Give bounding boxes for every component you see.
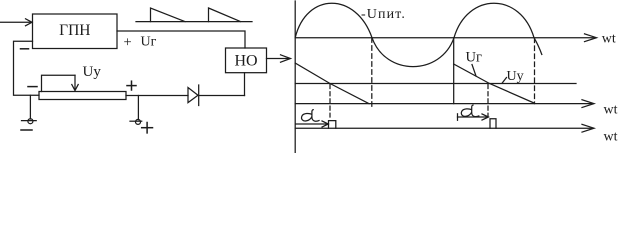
axis wt pulses (295, 127, 593, 129)
potentiometer R1 body (39, 92, 126, 100)
label alpha 1 (302, 110, 320, 122)
sawtooth icon 2 (209, 8, 241, 22)
block U2 НО (226, 48, 267, 73)
axis wt sine (295, 37, 595, 39)
leader Uг waveform label (472, 65, 476, 77)
alpha 2 tick (457, 114, 459, 121)
terminal plus branch (137, 96, 139, 120)
pulse 2 (490, 119, 496, 128)
dashed line crossing 1 (371, 38, 373, 107)
arrow НО output (267, 58, 290, 60)
wire diode to НО branch (199, 95, 245, 97)
wire pot to diode (126, 95, 188, 97)
ramp 1 Uг (295, 63, 369, 104)
svg-text:wt: wt (604, 130, 618, 145)
terminal minus branch (29, 95, 31, 119)
dashed line crossing 2 (534, 38, 536, 104)
svg-text:wt: wt (604, 103, 618, 118)
wire input to ГПН (0, 21, 32, 23)
leader Uу waveform label (502, 78, 507, 84)
dashed line pulse 1 (329, 85, 331, 118)
line Uу level (295, 83, 576, 85)
svg-text:Uг: Uг (141, 35, 157, 50)
wiper arrow (74, 75, 76, 89)
sawtooth icon baseline (136, 21, 252, 23)
pulse 1 (329, 121, 336, 129)
block U1 ГПН (33, 14, 118, 49)
svg-text:+: + (124, 35, 132, 51)
diode VD1 (188, 88, 198, 103)
label minus (pot left) (28, 86, 37, 88)
svg-text:wt: wt (602, 31, 616, 46)
svg-text:Uу: Uу (507, 69, 524, 84)
ramp 2 vertical edge (453, 38, 455, 104)
arrowhead input (26, 19, 33, 26)
svg-text:НО: НО (234, 53, 257, 70)
label plus (pot right) (127, 85, 136, 87)
ramp 2 Uг (454, 64, 534, 103)
axis wt ramps (295, 103, 593, 105)
wiper arm (42, 75, 76, 91)
axis vertical (294, 1, 296, 153)
label minus (terminal) (21, 129, 32, 131)
sawtooth icon 1 (151, 8, 186, 22)
sine Uпит (295, 3, 542, 66)
label alpha 2 (461, 105, 479, 117)
alpha 1 arrow (296, 123, 327, 125)
svg-text:Uу: Uу (83, 64, 102, 80)
wire feedback (14, 41, 40, 95)
svg-text:-Uпит.: -Uпит. (361, 7, 406, 22)
svg-text:Uг: Uг (466, 50, 482, 66)
alpha 2 arrow (458, 116, 488, 118)
label minus (feedback at block) (21, 48, 29, 50)
label plus (terminal) (142, 127, 153, 129)
svg-text:ГПН: ГПН (59, 22, 90, 39)
wire НО to diode line (244, 73, 246, 96)
dashed line pulse 2 (487, 85, 489, 117)
wire Uг output (117, 31, 245, 48)
